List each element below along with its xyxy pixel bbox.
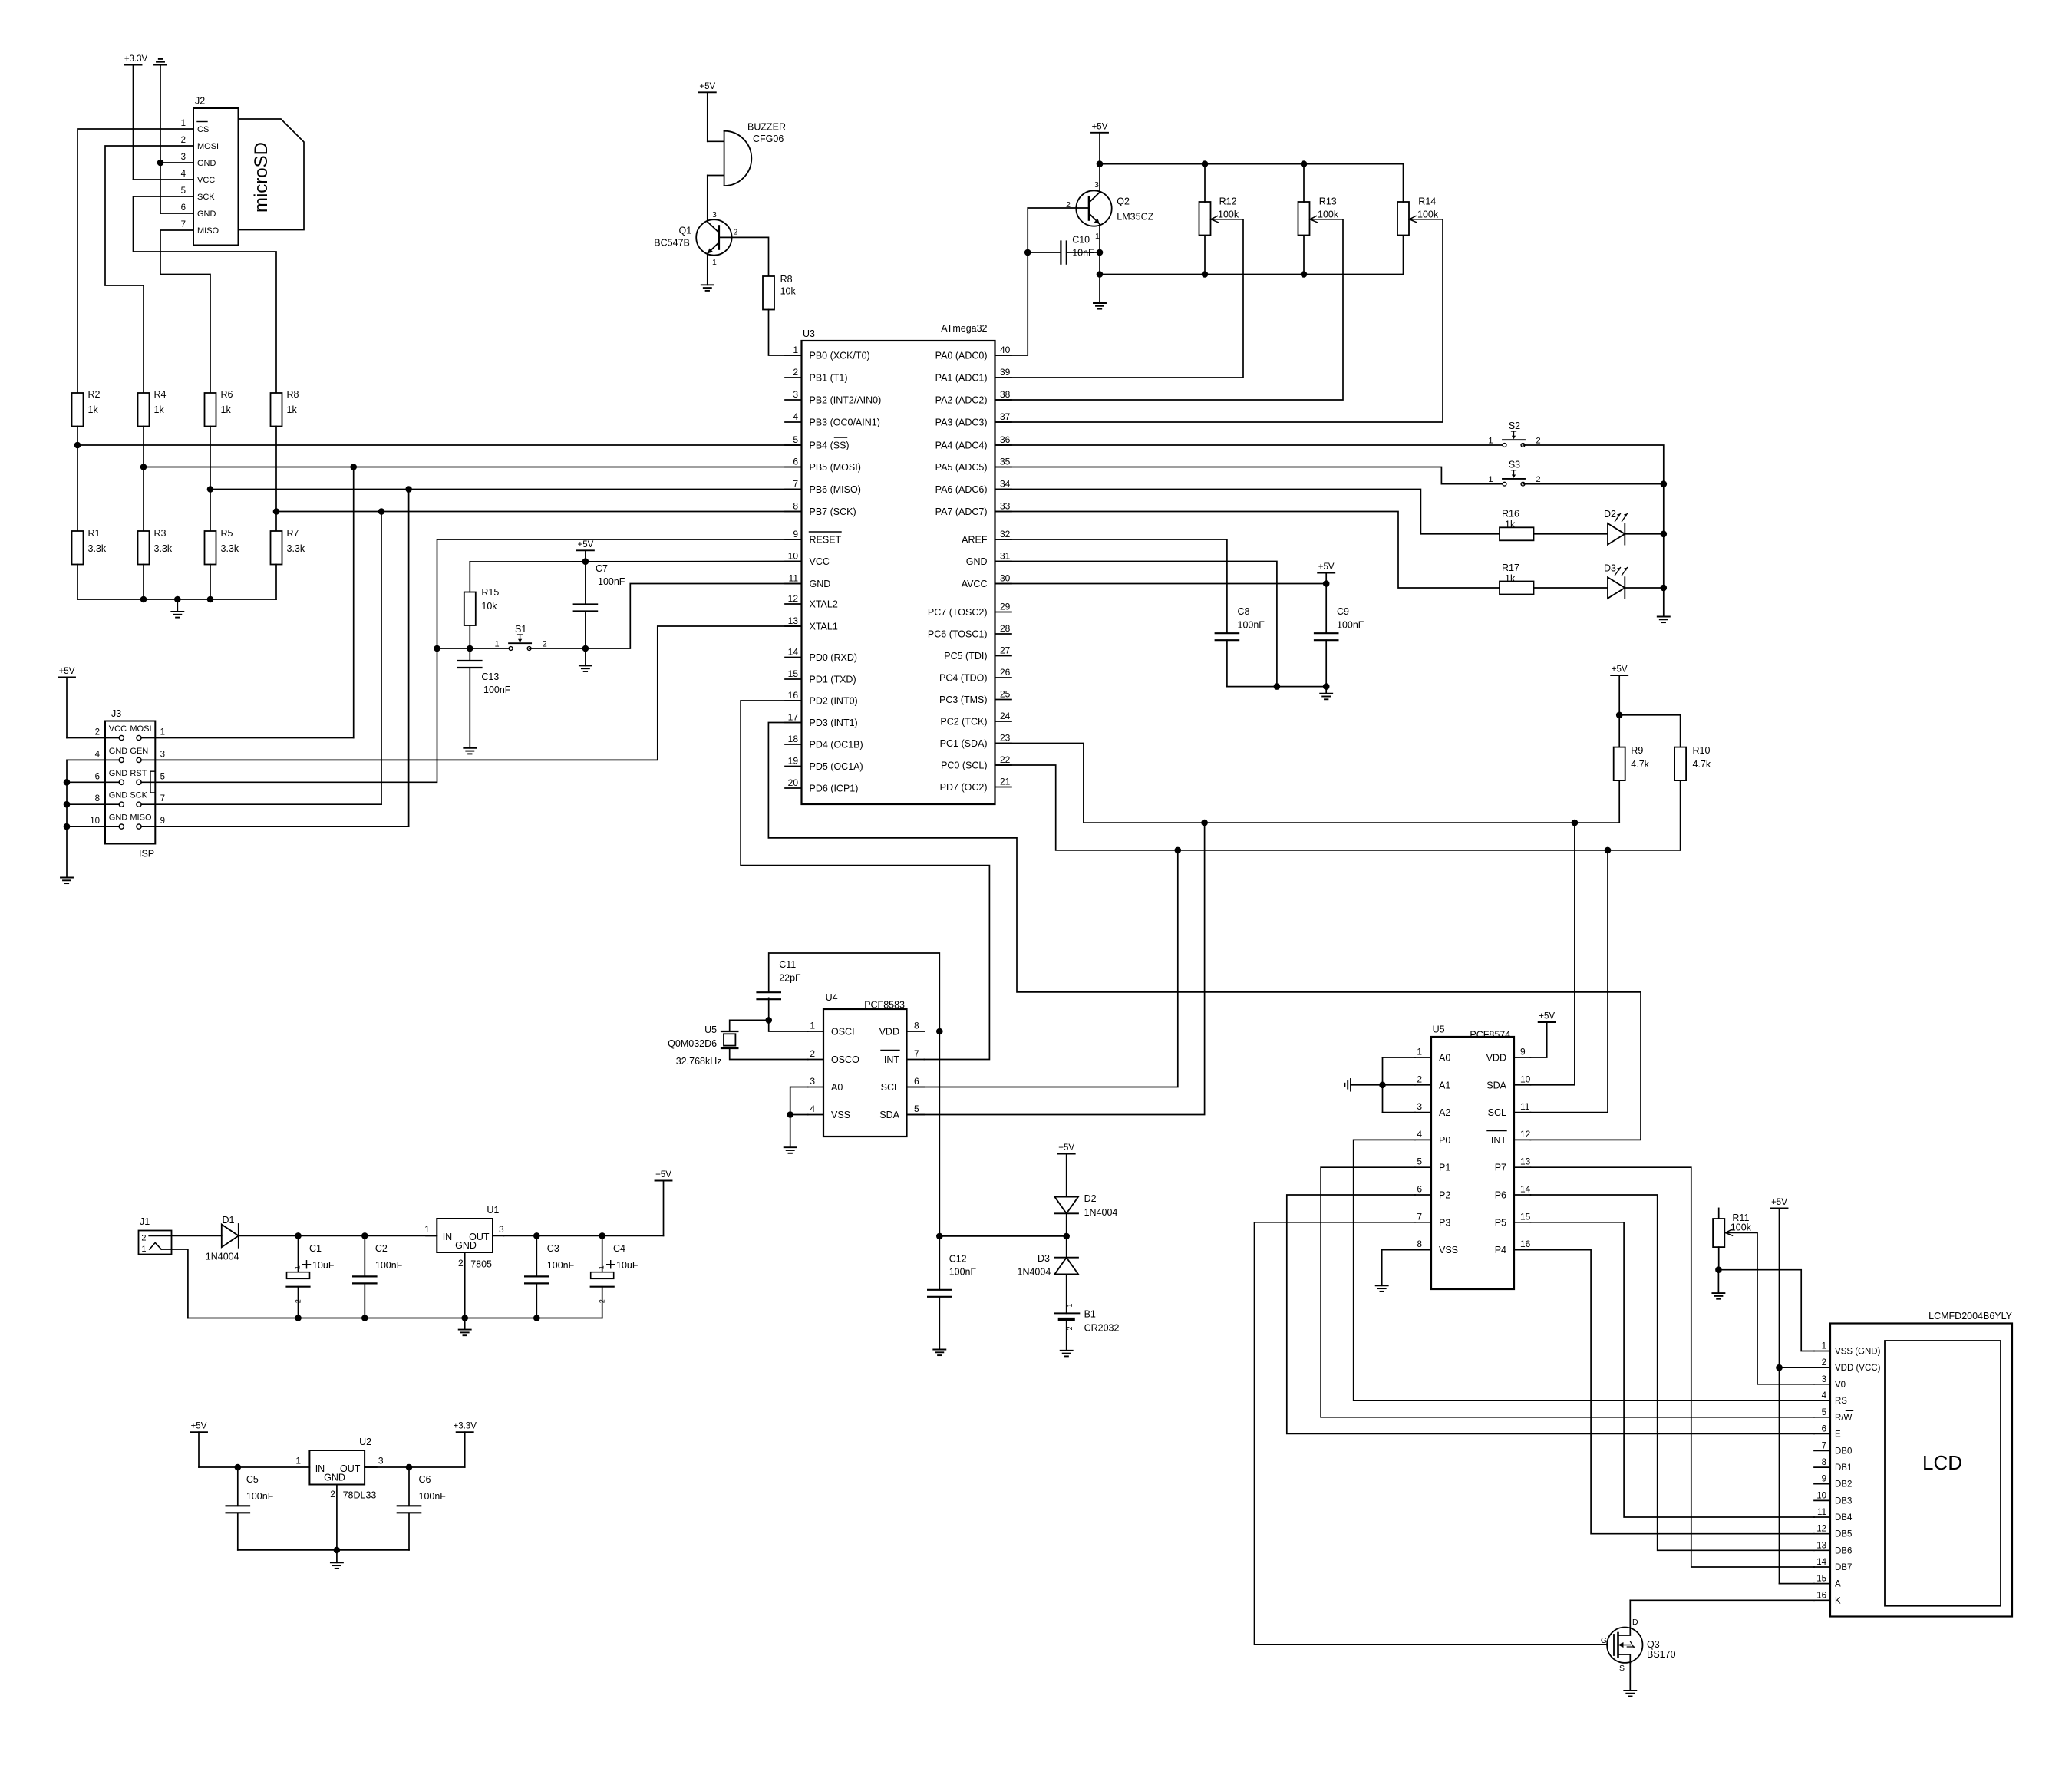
svg-text:P1: P1 bbox=[1439, 1163, 1450, 1173]
svg-text:GEN: GEN bbox=[130, 747, 148, 756]
svg-text:17: 17 bbox=[788, 712, 799, 723]
svg-text:GND: GND bbox=[109, 813, 128, 823]
svg-text:A: A bbox=[1835, 1580, 1841, 1589]
svg-text:MOSI: MOSI bbox=[130, 724, 151, 734]
svg-text:A2: A2 bbox=[1439, 1107, 1450, 1118]
svg-text:8: 8 bbox=[95, 794, 100, 803]
svg-text:14: 14 bbox=[1520, 1184, 1531, 1195]
svg-text:1N4004: 1N4004 bbox=[206, 1252, 239, 1262]
svg-text:SDA: SDA bbox=[1486, 1080, 1506, 1090]
svg-text:1k: 1k bbox=[1505, 520, 1516, 530]
svg-text:P6: P6 bbox=[1495, 1190, 1506, 1201]
svg-text:P3: P3 bbox=[1439, 1217, 1450, 1228]
svg-text:S: S bbox=[1619, 1664, 1625, 1673]
svg-text:V0: V0 bbox=[1835, 1381, 1846, 1390]
svg-text:R7: R7 bbox=[287, 528, 299, 539]
svg-text:Q1: Q1 bbox=[679, 225, 692, 236]
svg-text:29: 29 bbox=[1000, 602, 1011, 612]
svg-text:MISO: MISO bbox=[197, 226, 219, 236]
svg-text:15: 15 bbox=[1520, 1211, 1531, 1222]
svg-text:A1: A1 bbox=[1439, 1080, 1450, 1090]
svg-text:+5V: +5V bbox=[59, 667, 75, 676]
svg-text:8: 8 bbox=[1417, 1239, 1422, 1249]
svg-text:PB7 (SCK): PB7 (SCK) bbox=[810, 506, 856, 517]
svg-text:CS: CS bbox=[197, 125, 209, 134]
svg-text:PC7 (TOSC2): PC7 (TOSC2) bbox=[928, 607, 988, 618]
svg-text:1k: 1k bbox=[1505, 573, 1516, 584]
svg-text:3: 3 bbox=[712, 210, 717, 219]
svg-text:3.3k: 3.3k bbox=[88, 543, 107, 554]
svg-text:XTAL2: XTAL2 bbox=[810, 599, 838, 610]
svg-text:INT: INT bbox=[884, 1054, 900, 1065]
svg-text:1: 1 bbox=[598, 1265, 605, 1269]
svg-text:PB5 (MOSI): PB5 (MOSI) bbox=[810, 462, 861, 473]
svg-text:VDD (VCC): VDD (VCC) bbox=[1835, 1364, 1881, 1373]
svg-text:6: 6 bbox=[95, 772, 100, 781]
svg-text:6: 6 bbox=[1417, 1184, 1422, 1195]
svg-text:+5V: +5V bbox=[1771, 1198, 1787, 1207]
svg-text:+5V: +5V bbox=[1539, 1012, 1555, 1021]
svg-text:7: 7 bbox=[1822, 1441, 1826, 1450]
svg-text:12: 12 bbox=[1816, 1525, 1826, 1534]
svg-text:1: 1 bbox=[810, 1021, 815, 1031]
svg-text:E: E bbox=[1835, 1430, 1841, 1439]
svg-text:1: 1 bbox=[1417, 1047, 1422, 1057]
svg-text:PD3 (INT1): PD3 (INT1) bbox=[810, 718, 858, 728]
svg-text:J2: J2 bbox=[195, 96, 205, 107]
svg-text:Q3: Q3 bbox=[1647, 1639, 1660, 1650]
svg-text:10: 10 bbox=[1520, 1074, 1531, 1084]
svg-text:78DL33: 78DL33 bbox=[343, 1490, 377, 1501]
svg-text:+3.3V: +3.3V bbox=[454, 1422, 477, 1431]
svg-text:1: 1 bbox=[160, 728, 165, 737]
svg-text:+5V: +5V bbox=[655, 1170, 671, 1179]
svg-text:7: 7 bbox=[793, 479, 798, 490]
svg-text:R3: R3 bbox=[154, 528, 167, 539]
svg-text:GND: GND bbox=[109, 747, 128, 756]
svg-text:+5V: +5V bbox=[191, 1422, 207, 1431]
svg-text:PC0 (SCL): PC0 (SCL) bbox=[941, 760, 987, 771]
svg-text:ATmega32: ATmega32 bbox=[941, 323, 987, 334]
svg-text:microSD: microSD bbox=[251, 142, 272, 213]
svg-text:PC4 (TDO): PC4 (TDO) bbox=[939, 673, 988, 684]
svg-text:33: 33 bbox=[1000, 501, 1011, 512]
svg-text:18: 18 bbox=[788, 734, 799, 744]
svg-text:+5V: +5V bbox=[1612, 665, 1628, 675]
svg-text:BUZZER: BUZZER bbox=[747, 122, 786, 133]
svg-text:D2: D2 bbox=[1604, 509, 1616, 520]
svg-text:U2: U2 bbox=[359, 1437, 371, 1447]
svg-text:SCK: SCK bbox=[197, 193, 215, 202]
svg-text:3: 3 bbox=[160, 750, 165, 759]
svg-text:5: 5 bbox=[1417, 1156, 1422, 1167]
svg-text:10k: 10k bbox=[780, 286, 797, 297]
svg-text:3: 3 bbox=[793, 389, 798, 400]
svg-text:XTAL1: XTAL1 bbox=[810, 622, 838, 632]
svg-text:3: 3 bbox=[181, 153, 186, 162]
svg-text:100k: 100k bbox=[1218, 209, 1239, 220]
svg-text:+5V: +5V bbox=[1058, 1143, 1074, 1153]
svg-text:1: 1 bbox=[424, 1224, 430, 1235]
svg-text:19: 19 bbox=[788, 756, 799, 767]
svg-text:1k: 1k bbox=[154, 404, 165, 415]
svg-text:INT: INT bbox=[1491, 1135, 1507, 1146]
svg-text:10k: 10k bbox=[481, 601, 497, 612]
svg-text:3.3k: 3.3k bbox=[154, 543, 173, 554]
svg-text:PC3 (TMS): PC3 (TMS) bbox=[939, 694, 988, 705]
svg-text:PB2 (INT2/AIN0): PB2 (INT2/AIN0) bbox=[810, 395, 882, 406]
svg-text:C9: C9 bbox=[1337, 606, 1349, 617]
svg-text:P2: P2 bbox=[1439, 1190, 1450, 1201]
svg-text:SCL: SCL bbox=[881, 1082, 899, 1093]
svg-text:U5: U5 bbox=[704, 1024, 717, 1035]
svg-text:C7: C7 bbox=[596, 563, 608, 574]
svg-text:D: D bbox=[1632, 1618, 1638, 1627]
svg-text:4: 4 bbox=[181, 170, 186, 179]
svg-text:1k: 1k bbox=[221, 404, 232, 415]
svg-text:OSCI: OSCI bbox=[831, 1027, 855, 1038]
svg-text:PD1 (TXD): PD1 (TXD) bbox=[810, 675, 856, 685]
svg-text:8: 8 bbox=[793, 501, 798, 512]
svg-text:4: 4 bbox=[1822, 1391, 1827, 1400]
svg-text:1N4004: 1N4004 bbox=[1084, 1207, 1118, 1218]
svg-text:6: 6 bbox=[914, 1076, 919, 1087]
svg-text:3: 3 bbox=[1417, 1101, 1422, 1112]
svg-text:24: 24 bbox=[1000, 711, 1011, 721]
svg-text:11: 11 bbox=[1817, 1508, 1826, 1517]
svg-text:D3: D3 bbox=[1604, 562, 1616, 573]
svg-text:1: 1 bbox=[1488, 437, 1493, 446]
svg-text:PC5 (TDI): PC5 (TDI) bbox=[944, 651, 987, 661]
svg-text:LM35CZ: LM35CZ bbox=[1117, 212, 1153, 223]
svg-text:4: 4 bbox=[1417, 1129, 1422, 1140]
svg-text:10nF: 10nF bbox=[1072, 248, 1094, 259]
svg-text:PD2 (INT0): PD2 (INT0) bbox=[810, 696, 858, 707]
svg-text:3: 3 bbox=[378, 1456, 384, 1466]
svg-text:13: 13 bbox=[1520, 1156, 1531, 1167]
svg-text:100nF: 100nF bbox=[483, 685, 511, 695]
svg-text:100nF: 100nF bbox=[419, 1491, 447, 1502]
svg-text:PB1 (T1): PB1 (T1) bbox=[810, 373, 848, 384]
svg-text:C2: C2 bbox=[375, 1243, 388, 1254]
svg-text:2: 2 bbox=[734, 228, 738, 237]
svg-text:5: 5 bbox=[793, 434, 798, 445]
svg-text:R17: R17 bbox=[1502, 562, 1519, 573]
svg-text:28: 28 bbox=[1000, 623, 1011, 634]
svg-text:R/W: R/W bbox=[1835, 1414, 1853, 1423]
svg-text:Q0M032D6: Q0M032D6 bbox=[668, 1038, 717, 1049]
svg-text:SCL: SCL bbox=[1488, 1107, 1506, 1118]
svg-text:PCF8583: PCF8583 bbox=[864, 1000, 905, 1011]
svg-text:R13: R13 bbox=[1319, 196, 1337, 206]
svg-text:PA0 (ADC0): PA0 (ADC0) bbox=[935, 351, 988, 361]
svg-text:30: 30 bbox=[1000, 573, 1011, 584]
svg-text:R8: R8 bbox=[287, 389, 299, 400]
svg-text:2: 2 bbox=[330, 1489, 335, 1499]
svg-text:3: 3 bbox=[810, 1076, 815, 1087]
svg-text:R1: R1 bbox=[88, 528, 101, 539]
svg-text:8: 8 bbox=[1822, 1458, 1826, 1467]
svg-text:5: 5 bbox=[160, 772, 165, 781]
svg-text:2: 2 bbox=[1536, 437, 1541, 446]
svg-text:1: 1 bbox=[793, 345, 798, 355]
svg-text:100nF: 100nF bbox=[246, 1491, 274, 1502]
svg-text:7: 7 bbox=[1417, 1211, 1422, 1222]
svg-text:PC2 (TCK): PC2 (TCK) bbox=[940, 717, 987, 727]
svg-text:PB6 (MISO): PB6 (MISO) bbox=[810, 484, 861, 495]
svg-text:DB0: DB0 bbox=[1835, 1447, 1852, 1456]
svg-text:2: 2 bbox=[543, 640, 547, 649]
svg-text:PA7 (ADC7): PA7 (ADC7) bbox=[935, 506, 988, 517]
svg-text:P5: P5 bbox=[1495, 1217, 1506, 1228]
svg-text:R12: R12 bbox=[1219, 196, 1237, 206]
svg-text:A0: A0 bbox=[831, 1082, 843, 1093]
svg-text:BS170: BS170 bbox=[1647, 1649, 1676, 1660]
svg-text:U5: U5 bbox=[1433, 1024, 1445, 1035]
svg-text:36: 36 bbox=[1000, 434, 1011, 445]
svg-text:14: 14 bbox=[1816, 1558, 1826, 1567]
svg-text:14: 14 bbox=[788, 647, 799, 658]
svg-text:R16: R16 bbox=[1502, 509, 1519, 520]
svg-text:S3: S3 bbox=[1509, 460, 1520, 470]
svg-text:16: 16 bbox=[788, 690, 799, 701]
svg-text:10: 10 bbox=[788, 551, 799, 562]
svg-text:4: 4 bbox=[810, 1104, 815, 1114]
svg-text:R15: R15 bbox=[481, 587, 499, 598]
svg-text:2: 2 bbox=[181, 136, 186, 145]
svg-text:1: 1 bbox=[294, 1265, 302, 1269]
svg-text:7: 7 bbox=[160, 794, 165, 803]
svg-text:U4: U4 bbox=[826, 992, 838, 1003]
svg-text:PA1 (ADC1): PA1 (ADC1) bbox=[935, 373, 988, 384]
svg-text:2: 2 bbox=[1417, 1074, 1422, 1084]
svg-text:+3.3V: +3.3V bbox=[124, 54, 148, 64]
svg-text:21: 21 bbox=[1000, 777, 1011, 787]
svg-text:7805: 7805 bbox=[470, 1259, 492, 1270]
svg-text:2: 2 bbox=[793, 367, 798, 378]
svg-text:15: 15 bbox=[788, 668, 799, 679]
svg-text:R2: R2 bbox=[88, 389, 101, 400]
svg-text:2: 2 bbox=[810, 1048, 815, 1059]
svg-text:VCC: VCC bbox=[197, 176, 215, 185]
svg-text:8: 8 bbox=[914, 1021, 919, 1031]
svg-text:PD5 (OC1A): PD5 (OC1A) bbox=[810, 761, 863, 772]
svg-text:32: 32 bbox=[1000, 529, 1011, 539]
svg-text:PD4 (OC1B): PD4 (OC1B) bbox=[810, 740, 863, 751]
svg-text:6: 6 bbox=[793, 457, 798, 467]
svg-text:5: 5 bbox=[914, 1104, 919, 1114]
svg-text:1: 1 bbox=[1488, 475, 1493, 484]
svg-text:VDD: VDD bbox=[879, 1027, 899, 1038]
svg-text:11: 11 bbox=[789, 573, 799, 584]
svg-text:C12: C12 bbox=[949, 1253, 967, 1264]
svg-text:1: 1 bbox=[1822, 1342, 1826, 1351]
svg-text:C5: C5 bbox=[246, 1474, 259, 1485]
svg-text:34: 34 bbox=[1000, 479, 1011, 490]
svg-text:DB7: DB7 bbox=[1835, 1563, 1852, 1572]
svg-text:4.7k: 4.7k bbox=[1693, 759, 1711, 770]
svg-text:5: 5 bbox=[1822, 1408, 1826, 1417]
svg-text:R14: R14 bbox=[1418, 196, 1436, 206]
svg-text:LCD: LCD bbox=[1922, 1451, 1962, 1474]
svg-text:PC6 (TOSC1): PC6 (TOSC1) bbox=[928, 629, 988, 640]
svg-text:GND: GND bbox=[324, 1473, 345, 1483]
svg-text:3.3k: 3.3k bbox=[221, 543, 239, 554]
svg-text:PC1 (SDA): PC1 (SDA) bbox=[940, 738, 988, 749]
svg-text:13: 13 bbox=[788, 615, 799, 626]
svg-text:PD7 (OC2): PD7 (OC2) bbox=[940, 782, 988, 793]
svg-text:10uF: 10uF bbox=[616, 1260, 638, 1271]
svg-text:1: 1 bbox=[494, 640, 499, 649]
svg-text:22: 22 bbox=[1000, 754, 1011, 765]
svg-text:GND: GND bbox=[109, 769, 128, 778]
svg-text:39: 39 bbox=[1000, 367, 1011, 378]
svg-text:20: 20 bbox=[788, 777, 799, 788]
svg-text:P0: P0 bbox=[1439, 1135, 1450, 1146]
svg-text:10uF: 10uF bbox=[312, 1260, 335, 1271]
svg-text:11: 11 bbox=[1520, 1101, 1530, 1112]
svg-text:VDD: VDD bbox=[1486, 1053, 1506, 1064]
svg-text:P7: P7 bbox=[1495, 1163, 1506, 1173]
svg-text:MOSI: MOSI bbox=[197, 142, 219, 151]
svg-text:2: 2 bbox=[1822, 1358, 1826, 1367]
svg-text:G: G bbox=[1601, 1636, 1607, 1645]
svg-text:1: 1 bbox=[712, 258, 717, 267]
svg-text:22pF: 22pF bbox=[779, 973, 801, 984]
svg-text:C10: C10 bbox=[1072, 234, 1090, 245]
svg-text:S1: S1 bbox=[515, 624, 526, 635]
svg-text:PA4 (ADC4): PA4 (ADC4) bbox=[935, 440, 988, 451]
svg-text:Q2: Q2 bbox=[1117, 196, 1130, 206]
svg-text:100nF: 100nF bbox=[1238, 620, 1265, 631]
svg-text:J1: J1 bbox=[140, 1216, 150, 1227]
svg-text:C11: C11 bbox=[779, 959, 796, 970]
svg-text:2: 2 bbox=[458, 1258, 464, 1268]
svg-text:+5V: +5V bbox=[1092, 122, 1108, 131]
svg-text:AREF: AREF bbox=[962, 535, 988, 546]
svg-text:VCC: VCC bbox=[109, 724, 127, 734]
svg-text:DB3: DB3 bbox=[1835, 1496, 1852, 1506]
svg-text:3: 3 bbox=[1822, 1375, 1826, 1384]
svg-text:C8: C8 bbox=[1238, 606, 1250, 617]
svg-text:U1: U1 bbox=[487, 1205, 499, 1216]
svg-text:PA3 (ADC3): PA3 (ADC3) bbox=[935, 417, 988, 428]
svg-text:R10: R10 bbox=[1693, 745, 1711, 756]
svg-text:1: 1 bbox=[1095, 232, 1100, 241]
svg-text:5: 5 bbox=[181, 186, 186, 196]
svg-text:9: 9 bbox=[793, 529, 798, 539]
svg-text:35: 35 bbox=[1000, 457, 1011, 467]
svg-text:CFG06: CFG06 bbox=[753, 134, 784, 144]
svg-text:2: 2 bbox=[95, 728, 100, 737]
svg-text:100k: 100k bbox=[1417, 209, 1439, 220]
svg-text:VSS: VSS bbox=[1439, 1245, 1458, 1255]
svg-text:40: 40 bbox=[1000, 345, 1011, 355]
svg-text:D3: D3 bbox=[1038, 1253, 1050, 1264]
svg-text:C6: C6 bbox=[419, 1474, 431, 1485]
svg-text:DB5: DB5 bbox=[1835, 1530, 1852, 1539]
svg-text:26: 26 bbox=[1000, 667, 1011, 678]
svg-text:100k: 100k bbox=[1318, 209, 1339, 220]
svg-text:DB2: DB2 bbox=[1835, 1480, 1852, 1490]
svg-text:4: 4 bbox=[793, 411, 798, 422]
svg-text:1k: 1k bbox=[88, 404, 99, 415]
svg-text:SDA: SDA bbox=[879, 1110, 899, 1120]
svg-text:R6: R6 bbox=[221, 389, 233, 400]
svg-text:100nF: 100nF bbox=[598, 576, 625, 587]
svg-text:2: 2 bbox=[141, 1234, 146, 1243]
svg-text:9: 9 bbox=[1520, 1047, 1526, 1057]
svg-text:SCK: SCK bbox=[130, 791, 147, 800]
svg-text:9: 9 bbox=[1822, 1475, 1826, 1484]
svg-text:4: 4 bbox=[95, 750, 101, 759]
svg-text:GND: GND bbox=[966, 556, 988, 567]
svg-text:16: 16 bbox=[1816, 1591, 1826, 1600]
svg-text:RESET: RESET bbox=[810, 535, 842, 546]
svg-text:1k: 1k bbox=[287, 404, 298, 415]
svg-text:3: 3 bbox=[1094, 180, 1099, 190]
svg-text:7: 7 bbox=[914, 1048, 919, 1059]
svg-text:10: 10 bbox=[1816, 1491, 1826, 1500]
svg-text:VSS: VSS bbox=[831, 1110, 850, 1120]
svg-text:3: 3 bbox=[499, 1224, 504, 1235]
svg-text:P4: P4 bbox=[1495, 1245, 1506, 1255]
svg-text:R4: R4 bbox=[154, 389, 167, 400]
svg-text:GND: GND bbox=[197, 209, 216, 219]
svg-text:4.7k: 4.7k bbox=[1631, 759, 1649, 770]
svg-text:GND: GND bbox=[455, 1240, 477, 1251]
svg-text:100nF: 100nF bbox=[1337, 620, 1364, 631]
svg-text:PCF8574: PCF8574 bbox=[1470, 1030, 1510, 1041]
svg-text:38: 38 bbox=[1000, 389, 1011, 400]
svg-text:PA5 (ADC5): PA5 (ADC5) bbox=[935, 462, 988, 473]
svg-text:100nF: 100nF bbox=[547, 1260, 575, 1271]
svg-text:MISO: MISO bbox=[130, 813, 152, 823]
svg-text:LCMFD2004B6YLY: LCMFD2004B6YLY bbox=[1928, 1311, 2013, 1321]
svg-text:RS: RS bbox=[1835, 1397, 1847, 1406]
svg-text:A0: A0 bbox=[1439, 1053, 1450, 1064]
svg-text:GND: GND bbox=[197, 159, 216, 168]
svg-text:2: 2 bbox=[1536, 475, 1541, 484]
svg-text:S2: S2 bbox=[1509, 421, 1520, 431]
svg-text:IN: IN bbox=[443, 1232, 453, 1242]
svg-text:C1: C1 bbox=[309, 1243, 322, 1254]
svg-text:D2: D2 bbox=[1084, 1193, 1097, 1204]
svg-text:BC547B: BC547B bbox=[654, 237, 690, 248]
svg-text:CR2032: CR2032 bbox=[1084, 1322, 1120, 1333]
svg-text:7: 7 bbox=[181, 220, 186, 229]
svg-text:6: 6 bbox=[181, 203, 186, 213]
svg-text:32.768kHz: 32.768kHz bbox=[676, 1056, 722, 1067]
svg-text:27: 27 bbox=[1000, 645, 1011, 656]
svg-text:OSCO: OSCO bbox=[831, 1054, 859, 1065]
svg-text:12: 12 bbox=[1520, 1129, 1531, 1140]
svg-text:ISP: ISP bbox=[139, 849, 154, 859]
svg-text:B1: B1 bbox=[1084, 1308, 1096, 1319]
svg-text:DB1: DB1 bbox=[1835, 1463, 1852, 1473]
svg-text:AVCC: AVCC bbox=[962, 579, 988, 589]
svg-text:9: 9 bbox=[160, 817, 165, 826]
svg-text:PA2 (ADC2): PA2 (ADC2) bbox=[935, 395, 988, 406]
svg-text:+5V: +5V bbox=[578, 540, 594, 549]
svg-text:1: 1 bbox=[141, 1245, 146, 1254]
svg-text:+5V: +5V bbox=[1318, 562, 1335, 572]
svg-text:R8: R8 bbox=[780, 274, 793, 285]
svg-text:R9: R9 bbox=[1631, 745, 1643, 756]
svg-text:D1: D1 bbox=[223, 1215, 235, 1226]
svg-text:1N4004: 1N4004 bbox=[1018, 1267, 1051, 1278]
svg-text:13: 13 bbox=[1816, 1541, 1826, 1550]
